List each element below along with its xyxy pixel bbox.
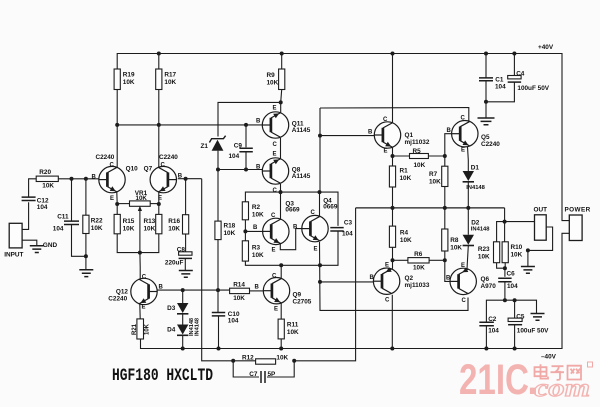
svg-text:C: C (161, 163, 166, 169)
junction R5 / R7 / Q5 base (443, 154, 447, 158)
svg-text:Z1: Z1 (201, 143, 209, 150)
svg-text:10K: 10K (400, 175, 412, 182)
resistor R9 (279, 69, 285, 90)
transistor Q11 A1145 (262, 112, 288, 138)
svg-text:R4: R4 (400, 230, 409, 237)
wire C9 bottom to Q8 base wire (245, 152, 247, 170)
svg-text:R11: R11 (287, 322, 299, 329)
capacitor C5 100uF 50V (508, 318, 522, 321)
svg-text:10K: 10K (400, 237, 412, 244)
svg-text:R13: R13 (144, 218, 156, 225)
wire output bus down to R12/C7 right node (294, 208, 355, 361)
wire C11 bottom to ground net (72, 224, 87, 256)
svg-text:E: E (273, 152, 277, 158)
wire rail to R9 (281, 54, 283, 70)
svg-text:E: E (142, 305, 146, 311)
junction base wire / D3-D4 (181, 288, 185, 292)
wire +40V rail to Q1 collector (392, 54, 394, 123)
wire OUT jack return to ground (528, 227, 553, 267)
zener diode Z1 (212, 140, 224, 151)
svg-text:–40V: –40V (541, 354, 557, 361)
svg-text:0669: 0669 (285, 207, 300, 214)
wire rail to C1 (485, 54, 487, 78)
wire Q5 base down to R7 (445, 134, 452, 167)
svg-text:C: C (383, 117, 388, 123)
diode D3 IN4148 (177, 303, 188, 313)
svg-text:10K: 10K (91, 225, 103, 232)
wire Q12 emitter to R21 (139, 304, 141, 319)
svg-text:10K: 10K (429, 179, 441, 186)
svg-text:E: E (314, 247, 318, 253)
wire input jack to C12 (22, 202, 29, 229)
transistor Q7 C2240 (150, 166, 176, 192)
svg-text:IN4148: IN4148 (471, 227, 490, 233)
potentiometer VR1 wiper arrow (139, 209, 141, 253)
resistor R6 (408, 258, 429, 263)
wire R7 to bus / R8 (444, 187, 446, 230)
svg-text:104: 104 (507, 283, 518, 290)
wire R14 to Q9 base (250, 290, 264, 292)
wire R19 bottom to Q10 collector (116, 90, 118, 169)
wire wiper to Q12 collector (139, 253, 141, 267)
junction C2 / bottom rail (484, 347, 488, 351)
svg-text:B: B (446, 276, 451, 282)
junction C10 / bottom rail (217, 347, 221, 351)
svg-text:R7: R7 (429, 171, 438, 178)
svg-text:10K: 10K (478, 253, 490, 260)
junction R2/R3 / Q3 base (243, 229, 247, 233)
junction C6 / decoupling wire (503, 298, 507, 302)
wire R11 to -40V rail (280, 339, 282, 349)
ground (C8) (179, 271, 193, 278)
resistor R4 (389, 226, 395, 247)
junction rail / R9 (280, 52, 284, 56)
wire +40V top rail (117, 54, 569, 221)
svg-text:10K: 10K (123, 79, 135, 86)
svg-text:C7: C7 (249, 371, 258, 378)
capacitor C8 220uF (179, 252, 192, 255)
wire VAS node vertical (Q4 C to Q5/Q1) (319, 108, 321, 192)
wire Q9 collector up (280, 265, 282, 278)
wire R6 right lead (429, 259, 445, 261)
svg-text:D1: D1 (471, 165, 480, 172)
svg-text:R23: R23 (478, 246, 490, 253)
wire output bus (356, 207, 505, 209)
wire Q8 collector to Q3 collector (280, 184, 282, 219)
transistor Q12 C2240 (131, 278, 157, 304)
junction base wire / C11 (70, 177, 74, 181)
svg-text:R12: R12 (242, 354, 254, 361)
svg-text:10K: 10K (287, 329, 299, 336)
svg-text:C3: C3 (344, 220, 353, 227)
svg-text:10K: 10K (450, 245, 462, 252)
capacitor C6 (498, 278, 511, 281)
capacitor C9 (239, 148, 252, 151)
svg-text:E: E (110, 196, 114, 202)
svg-text:E: E (384, 149, 388, 155)
wire rail to C4 (513, 54, 515, 76)
junction R19 column / base wire (115, 123, 119, 127)
junction R1-R4 / output bus (391, 206, 395, 210)
junction C1 net / ground stem (484, 100, 488, 104)
junction R18 column / Q12 base wire (216, 288, 220, 292)
svg-text:C2240: C2240 (159, 154, 178, 161)
wire R15/R13 bottoms (117, 234, 159, 253)
resistor R14 (230, 288, 250, 293)
junction output driver line / Q2 base wire (318, 280, 322, 284)
wire R1 to bus / R4 (392, 187, 394, 226)
resistor R8 (442, 229, 448, 251)
transistor Q6 A970 (450, 268, 476, 295)
svg-text:E: E (274, 307, 278, 313)
svg-text:E: E (385, 263, 389, 269)
resistor R15 (114, 214, 120, 233)
wire R5 left lead (393, 155, 410, 157)
junction Q10 emitter / VR1 left (115, 202, 119, 206)
svg-text:OUT: OUT (534, 207, 548, 214)
diode D1 IN4148 (463, 171, 474, 181)
svg-text:R21: R21 (132, 323, 138, 335)
wire D4 to -40V rail (182, 336, 184, 349)
resistor R19 (114, 69, 120, 90)
capacitor C7 (261, 371, 265, 383)
resistor R1 (389, 166, 395, 187)
wire Z1 top to Q11 emitter node (218, 102, 281, 136)
svg-text:C11: C11 (57, 214, 69, 221)
capacitor C11 (64, 221, 79, 224)
wire bus to D2 (467, 208, 469, 235)
wire Q4 collector up to mirror rail (319, 192, 321, 215)
svg-text:R10: R10 (511, 244, 523, 251)
wire to D3 (182, 290, 184, 303)
wire C10 to -40V rail (218, 316, 220, 349)
junction rail / C1 (484, 52, 488, 56)
resistor R18 (215, 221, 221, 240)
svg-text:INPUT: INPUT (4, 252, 23, 259)
wire feedback: Q7 base down to R12/C7 node (202, 179, 234, 361)
wire Z1 bottom through to R18 (217, 151, 219, 221)
wire R4 to Q2 emitter (392, 247, 394, 268)
connector OUT jack (535, 215, 547, 240)
capacitor C3 (330, 228, 343, 231)
svg-text:C: C (273, 188, 278, 194)
transistor Q5 C2240 (452, 121, 478, 147)
svg-text:100uF 50V: 100uF 50V (517, 328, 549, 335)
wire current-mirror rail to C3 (245, 192, 338, 226)
resistor R21 (137, 319, 144, 339)
wire to Q3 base (245, 230, 262, 232)
svg-text:C2: C2 (488, 316, 497, 323)
junction / Q9 collector (279, 263, 283, 267)
wire Q11 collector to Q8 emitter (280, 138, 282, 159)
svg-text:D4: D4 (167, 327, 176, 334)
svg-text:R9: R9 (267, 72, 276, 79)
junction R12/C7 left node (231, 359, 235, 363)
watermark 21IC.com logo (459, 356, 590, 404)
svg-text:+40V: +40V (538, 44, 554, 51)
wire to R23 top (497, 222, 505, 242)
junction Q2 collector / bottom rail (390, 347, 394, 351)
ground (input filter) (79, 270, 93, 277)
svg-text:104: 104 (53, 226, 64, 233)
wire R23/R10 bottoms (497, 263, 506, 269)
wire Q3 emitter to Q4 base (280, 229, 302, 250)
svg-text:R1: R1 (400, 168, 409, 175)
svg-text:C4: C4 (516, 70, 525, 77)
svg-text:C2240: C2240 (96, 154, 115, 161)
svg-text:C: C (311, 210, 316, 216)
junction D4 / bottom rail (181, 347, 185, 351)
svg-text:100uF 50V: 100uF 50V (517, 85, 549, 92)
transistor Q2 mj11033 (373, 267, 399, 294)
svg-text:10K: 10K (136, 195, 148, 202)
svg-text:104: 104 (228, 318, 239, 325)
svg-text:10K: 10K (144, 226, 156, 233)
capacitor C1 (479, 78, 493, 81)
svg-text:HGF180 HXCLTD: HGF180 HXCLTD (112, 366, 213, 386)
svg-text:R17: R17 (164, 72, 176, 79)
wire C2 to bottom rail (485, 326, 487, 349)
transistor Q3 D669 (263, 218, 289, 244)
resistor R13 (156, 214, 162, 233)
svg-text:R15: R15 (123, 218, 135, 225)
svg-text:R3: R3 (252, 245, 261, 252)
svg-text:C: C (142, 275, 147, 281)
wire bus corner down to R10 (504, 208, 506, 242)
wire R18 bottom to C10 (217, 240, 219, 312)
connector POWER jack (569, 215, 582, 241)
svg-text:IN4148: IN4148 (195, 318, 201, 336)
ground GND (input) (30, 246, 44, 253)
resistor R2 (242, 202, 248, 220)
svg-text:R18: R18 (224, 223, 236, 230)
svg-text:B: B (256, 119, 261, 125)
svg-text:R5: R5 (413, 148, 422, 155)
wire R22 bottom to ground (85, 234, 87, 270)
svg-text:C: C (462, 298, 467, 304)
svg-text:A1145: A1145 (292, 173, 311, 180)
watermark chinese characters (drawn glyph approximations) (535, 364, 582, 380)
wire R9 bottom to Q11 emitter (281, 90, 282, 114)
wire Q4 emitter down / output line to Q6 collector (320, 242, 469, 310)
svg-text:10K: 10K (164, 79, 176, 86)
wire Q7 base to feedback node (178, 178, 202, 180)
svg-text:D2: D2 (471, 220, 480, 227)
svg-text:10K: 10K (252, 212, 264, 219)
wire to ground under C1/C4 (485, 102, 487, 118)
svg-text:C: C (272, 274, 277, 280)
svg-text:C: C (110, 163, 115, 169)
capacitor C12 (22, 197, 36, 200)
svg-text:Q9: Q9 (293, 292, 302, 299)
resistor R12 (256, 359, 276, 364)
wire VR1 right lead (150, 203, 159, 205)
svg-text:10K: 10K (252, 252, 264, 259)
svg-text:POWER: POWER (565, 207, 591, 214)
svg-text:10K: 10K (168, 226, 180, 233)
wire D1 to output bus (467, 182, 469, 208)
wire R19/R17 row to Q11 base (117, 124, 262, 126)
wire R8 down to Q6 base (445, 251, 450, 281)
wire to C6 (504, 268, 506, 277)
watermark small trademark box (588, 362, 593, 367)
junction R7-R8 / output bus (443, 206, 447, 210)
ground (power supply) (478, 118, 495, 125)
wire rail to R17 (158, 54, 160, 70)
svg-text:10K: 10K (413, 265, 425, 272)
wire down to R22 (85, 179, 87, 215)
svg-text:mj11032: mj11032 (405, 139, 430, 146)
wire C6 to decoupling net (504, 282, 506, 301)
svg-text:0669: 0669 (323, 204, 338, 211)
diode D2 IN4148 (463, 235, 474, 245)
wire decoupling net C2-C5-ground (486, 300, 536, 322)
wire Q2 collector to -40V rail (391, 295, 393, 349)
wire input jack to GND (22, 240, 37, 246)
svg-text:Q10: Q10 (126, 166, 139, 173)
svg-text:C: C (273, 142, 278, 148)
junction C9 / Q8 base wire (244, 168, 248, 172)
junction OUT return / ground stem (526, 248, 530, 252)
junction R6 / R8 / Q6 base (443, 258, 447, 262)
wire C7 right (267, 361, 294, 377)
capacitor C10 (212, 313, 225, 316)
diode D4 IN4148 (177, 325, 188, 335)
junction R12/C7 right node (292, 359, 296, 363)
svg-text:10K: 10K (276, 354, 288, 361)
junction rail / R17 (157, 52, 161, 56)
wire VAS top to Q5 collector (320, 108, 469, 122)
resistor R20 (36, 176, 58, 181)
svg-text:B: B (256, 165, 261, 171)
svg-text:10K: 10K (414, 162, 426, 169)
svg-text:R14: R14 (233, 281, 245, 288)
wire Q7 emitter to R13/VR1 (158, 192, 160, 214)
wire C8 to ground (184, 259, 186, 271)
svg-text:Q7: Q7 (144, 166, 153, 173)
wire Q1 emitter to R1/R5 (392, 148, 394, 167)
wire C3 bottom to Q4 emitter node (320, 231, 338, 265)
svg-text:C5: C5 (516, 313, 525, 320)
svg-text:10K: 10K (144, 323, 150, 335)
svg-text:Q5: Q5 (481, 134, 490, 141)
svg-text:A1145: A1145 (292, 127, 311, 134)
wire R17 bottom to Q7 collector (158, 90, 160, 169)
wire to OUT jack (505, 221, 535, 223)
svg-text:B: B (92, 175, 97, 181)
svg-text:GND: GND (43, 242, 58, 249)
svg-text:E: E (273, 106, 277, 112)
svg-text:104: 104 (342, 231, 353, 238)
junction R23-R10 / C6 (503, 266, 507, 270)
svg-text:C2705: C2705 (293, 299, 312, 306)
svg-text:220uF: 220uF (165, 259, 184, 266)
capacitor C4 100uF 50V (508, 76, 521, 79)
svg-text:R8: R8 (450, 237, 459, 244)
junction Q8 collector / current mirror rail (279, 190, 283, 194)
resistor R23 (494, 242, 500, 263)
transistor Q4 D669 (302, 215, 328, 241)
svg-text:104: 104 (229, 153, 240, 160)
svg-text:D3: D3 (167, 305, 176, 312)
svg-text:C2240: C2240 (481, 141, 500, 148)
wire down to C9 (245, 125, 247, 147)
wire C7 left (233, 361, 259, 377)
svg-text:C: C (461, 116, 466, 122)
resistor R5 (410, 154, 429, 159)
wire down to C11 (71, 179, 73, 222)
wire to Q2 base (320, 281, 373, 283)
resistor R3 (242, 241, 248, 261)
potentiometer VR1 10K (130, 201, 151, 206)
svg-text:B: B (368, 130, 373, 136)
junction D1-D2 / output bus (466, 206, 470, 210)
wire R2 to R3 (244, 220, 246, 241)
transistor Q9 C2705 (263, 278, 289, 304)
wire C5 to bottom rail (514, 325, 516, 349)
svg-text:B: B (447, 128, 452, 134)
wire R12 left lead (233, 360, 255, 362)
junction decoupling / C5 (513, 298, 517, 302)
svg-text:Q2: Q2 (405, 275, 414, 282)
junction R11 / bottom rail (279, 347, 283, 351)
wire -40V bottom rail / right rail (141, 233, 570, 348)
svg-text:B: B (370, 275, 375, 281)
junction Q7 emitter / VR1 right (157, 202, 161, 206)
svg-text:10K: 10K (42, 183, 54, 190)
svg-text:B: B (255, 285, 260, 291)
svg-text:R16: R16 (168, 218, 180, 225)
resistor R7 (442, 166, 448, 186)
wire C12 to R20 (29, 179, 37, 197)
junction base wire / C9 (244, 123, 248, 127)
wire Q10 emitter to R15/VR1 (116, 192, 118, 214)
svg-text:C9: C9 (234, 143, 243, 150)
svg-text:R2: R2 (252, 204, 261, 211)
wire R6 left lead (393, 259, 408, 261)
svg-text:10K: 10K (224, 230, 236, 237)
junction OUT node (503, 220, 507, 224)
wire D3 to D4 (182, 314, 184, 325)
wire VAS to Q1 base (320, 135, 375, 137)
resistor R10 (502, 242, 508, 263)
svg-text:IN4148: IN4148 (466, 185, 485, 191)
junction base wire / R22 (84, 177, 88, 181)
svg-text:104: 104 (37, 204, 48, 211)
junction VR1 wiper / R15-R13 wire (138, 251, 142, 255)
resistor R11 (278, 319, 284, 339)
junction rail / Q1 collector (391, 52, 395, 56)
wire VR1 left lead (117, 203, 129, 205)
wire R3 bottom to Q9 collector rail (245, 261, 320, 265)
svg-text:C2240: C2240 (108, 296, 127, 303)
transistor Q1 mj11032 (374, 122, 400, 148)
svg-text:R20: R20 (39, 169, 51, 176)
wire R16 to C8 (185, 234, 187, 253)
resistor R17 (156, 69, 162, 90)
wire Q9 emitter to R11 (280, 304, 282, 320)
svg-text:R19: R19 (123, 72, 135, 79)
wire Q5 emitter to D1 (467, 147, 470, 171)
junction Z1 / C9 net (216, 168, 220, 172)
wire Q12 base to R14 (157, 289, 230, 291)
junction rail / C4 (512, 52, 516, 56)
wire to Q12 collector (139, 267, 141, 279)
connector INPUT jack (9, 223, 22, 248)
wire R5 right lead (428, 155, 444, 157)
junction C5 / bottom rail (513, 347, 517, 351)
junction R9 / Q11 emitter / Z1 wire (279, 100, 283, 104)
